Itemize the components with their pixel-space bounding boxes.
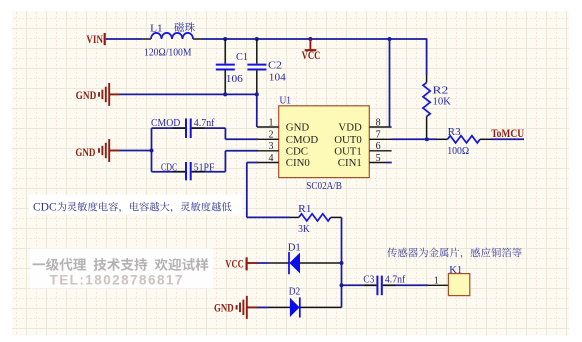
- pin 7 OUT0: [369, 138, 391, 140]
- svg-text:U1: U1: [280, 95, 292, 107]
- svg-text:VDD: VDD: [338, 122, 362, 134]
- wire to C3: [342, 284, 377, 286]
- svg-text:5: 5: [376, 153, 381, 164]
- wire pin5 stub tip: [386, 162, 392, 164]
- wire GND rail: [120, 93, 257, 95]
- node CMOD/CDC junction: [150, 149, 154, 153]
- note sensor metal: [387, 248, 397, 258]
- wire VDD up to bus: [389, 39, 391, 127]
- svg-text:3K: 3K: [298, 223, 310, 235]
- watermark box: [30, 249, 213, 289]
- svg-text:6: 6: [376, 141, 381, 152]
- wire top bus: [202, 38, 427, 40]
- wire CDC left: [151, 151, 153, 172]
- watermark line1: [33, 263, 46, 265]
- pin 4 CIN0: [257, 162, 279, 164]
- svg-text:VIN: VIN: [86, 32, 103, 46]
- node R2/OUT0: [425, 137, 429, 141]
- svg-text:D2: D2: [289, 285, 300, 297]
- pin 6 OUT1: [369, 150, 391, 152]
- svg-text:OUT1: OUT1: [334, 145, 362, 157]
- capacitor C2: [256, 39, 258, 64]
- wire C3 to K1: [383, 284, 428, 286]
- pin 3 CDC: [257, 150, 279, 152]
- node C2 top: [255, 37, 259, 41]
- wire R3 to ToMCU: [491, 138, 524, 140]
- svg-text:CDC: CDC: [33, 202, 57, 214]
- svg-text:D1: D1: [288, 241, 301, 253]
- capacitor C3 4.7nf: [376, 276, 378, 296]
- svg-text:R3: R3: [448, 126, 461, 138]
- wire GND to junction: [120, 150, 152, 152]
- svg-text:SC02A/B: SC02A/B: [306, 180, 342, 192]
- pin 8 VDD: [369, 126, 391, 128]
- resistor R1 3K: [290, 216, 299, 218]
- wire VIN to L1: [106, 38, 143, 40]
- pin 5 CIN1: [369, 162, 386, 164]
- wire VCC to D1: [257, 262, 269, 264]
- wire bus corner down to R2: [426, 38, 428, 75]
- wire down to U1 pin1: [256, 94, 258, 127]
- connector K1: [428, 284, 448, 286]
- capacitor C1: [224, 39, 226, 64]
- svg-text:GND: GND: [75, 145, 95, 159]
- svg-text:C3: C3: [363, 274, 374, 286]
- svg-text:CMOD: CMOD: [151, 117, 180, 129]
- svg-text:104: 104: [269, 72, 287, 84]
- pin 2 CMOD: [257, 138, 279, 140]
- diode D1: [269, 262, 289, 264]
- node C1 top: [223, 37, 227, 41]
- pin 1 GND: [257, 126, 279, 128]
- svg-text:C2: C2: [268, 60, 282, 72]
- svg-text:1: 1: [434, 275, 439, 286]
- svg-text:R1: R1: [298, 203, 311, 215]
- wire CDC right to pin3: [192, 171, 226, 173]
- svg-text:VCC: VCC: [225, 256, 244, 270]
- node C2 bottom: [255, 92, 259, 96]
- resistor R2 10K: [426, 75, 428, 83]
- node C1 bottom: [223, 92, 227, 96]
- wire CMOD left: [152, 127, 186, 129]
- inductor L1: [143, 38, 151, 40]
- svg-text:CDC: CDC: [286, 145, 308, 157]
- svg-text:2: 2: [269, 130, 274, 141]
- wire OUT0 row: [392, 138, 437, 140]
- node VCC tap: [308, 37, 312, 41]
- svg-text:OUT0: OUT0: [334, 134, 362, 146]
- svg-text:8: 8: [376, 117, 381, 128]
- svg-text:120Ω/100M: 120Ω/100M: [144, 47, 192, 59]
- wire R1 down leg: [341, 217, 343, 307]
- wire CMOD right to pin2: [192, 127, 226, 129]
- svg-text:CMOD: CMOD: [286, 134, 319, 146]
- svg-text:L1: L1: [150, 23, 163, 34]
- svg-text:106: 106: [226, 73, 244, 85]
- svg-text:CIN0: CIN0: [286, 157, 310, 169]
- svg-text:C1: C1: [236, 51, 248, 63]
- svg-text:GND: GND: [214, 301, 234, 315]
- resistor R3 100Ω: [437, 138, 448, 140]
- svg-text:CIN1: CIN1: [338, 157, 362, 169]
- svg-text:4: 4: [269, 153, 274, 164]
- wire GND to D2: [257, 306, 269, 308]
- diode D2: [269, 306, 291, 308]
- IC U1 SC02A/B body: [279, 106, 370, 178]
- wire CIN0 down: [247, 162, 258, 164]
- svg-text:4.7nf: 4.7nf: [385, 274, 406, 286]
- note CDC sensitivity (white box): [29, 195, 242, 215]
- svg-text:7: 7: [376, 130, 381, 141]
- node D1/R1: [340, 261, 344, 265]
- svg-text:VCC: VCC: [302, 48, 321, 62]
- svg-text:GND: GND: [286, 122, 310, 134]
- node VDD tap: [388, 37, 392, 41]
- svg-text:10K: 10K: [433, 95, 451, 107]
- node C3 tap: [340, 283, 344, 287]
- svg-text:100Ω: 100Ω: [447, 145, 469, 157]
- svg-text:1: 1: [269, 117, 274, 128]
- svg-text:ToMCU: ToMCU: [491, 126, 524, 140]
- svg-text:TEL:18028786817: TEL:18028786817: [50, 272, 184, 287]
- power VCC top: [309, 39, 311, 50]
- svg-text:K1: K1: [449, 264, 462, 276]
- svg-text:3: 3: [269, 141, 274, 152]
- svg-text:GND: GND: [76, 88, 97, 102]
